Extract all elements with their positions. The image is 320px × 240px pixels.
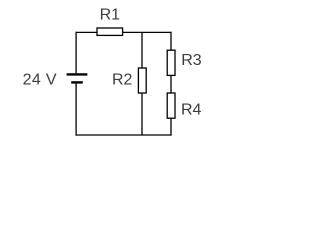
svg-text:24 V: 24 V [23, 71, 57, 88]
wire: left vertical lower (battery to bottom wire) [75, 83, 77, 135]
wire: middle vertical (R2 branch) [141, 32, 143, 135]
battery V1 top plate (long) [67, 73, 88, 75]
resistor R3 body [167, 50, 175, 75]
svg-text:R4: R4 [181, 102, 202, 119]
wire: bottom horizontal [76, 134, 172, 136]
svg-text:R3: R3 [181, 52, 202, 69]
battery V1 bottom plate (short) [71, 81, 83, 83]
wire: right vertical (R3/R4 branch) [170, 32, 172, 136]
svg-text:R1: R1 [100, 7, 121, 24]
wire: left vertical upper (battery to top wire) [75, 32, 77, 74]
wire: top horizontal from battery branch to right branch [76, 31, 172, 33]
resistor R1 body [97, 28, 123, 35]
resistor R2 body [138, 68, 146, 93]
resistor R4 body [167, 93, 175, 118]
svg-text:R2: R2 [112, 71, 133, 88]
